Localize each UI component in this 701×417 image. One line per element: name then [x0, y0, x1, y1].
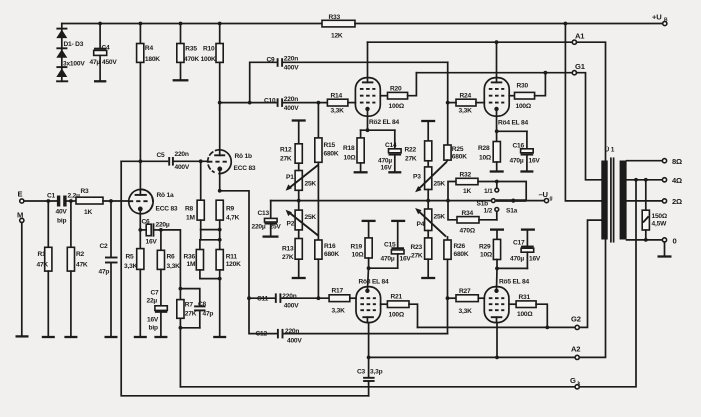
terminal -Ug — [539, 190, 553, 203]
svg-text:10Ω: 10Ω — [344, 155, 357, 162]
transformer secondary winding — [620, 161, 627, 240]
wire: A2 line — [369, 356, 575, 358]
resistor R4 — [137, 24, 161, 162]
junction: R31 on G2 — [545, 326, 549, 330]
svg-text:Ü 1: Ü 1 — [605, 145, 615, 154]
wire: G2 line — [418, 326, 576, 328]
wire: cathode branch to C11/C12 column — [220, 191, 249, 298]
svg-text:1M: 1M — [186, 215, 195, 222]
wire: A1 to transformer primary top — [577, 42, 606, 161]
capacitor C15 470u — [381, 222, 412, 268]
svg-text:R31: R31 — [519, 294, 531, 301]
svg-text:25K: 25K — [305, 181, 317, 188]
svg-text:680K: 680K — [324, 151, 339, 158]
svg-text:R16: R16 — [324, 243, 336, 250]
svg-text:10Ω: 10Ω — [479, 155, 492, 162]
terminal M — [17, 211, 24, 223]
pentode Roe2 EL84 — [355, 78, 399, 126]
ground bar above R29 — [490, 228, 504, 230]
wire: Roe3 cathode bar — [367, 268, 397, 291]
svg-text:R32: R32 — [460, 172, 472, 179]
resistor R6 — [157, 230, 180, 306]
wire: R36/R11 top bar — [200, 239, 220, 241]
svg-text:R5: R5 — [126, 254, 135, 261]
resistor R12 — [280, 121, 302, 171]
svg-text:3,3K: 3,3K — [331, 108, 345, 115]
svg-text:220n: 220n — [284, 96, 298, 103]
terminal A2 — [571, 345, 580, 360]
wire: Roe1a anode lead — [139, 161, 141, 195]
wire: C9 corner to R24 — [447, 62, 449, 102]
svg-text:47p: 47p — [203, 311, 214, 318]
svg-text:27K: 27K — [280, 156, 292, 163]
resistor R10 — [201, 24, 224, 103]
resistor R31 100 ohm (Roe5 screen) — [509, 294, 547, 327]
wire: R36/R11 bottom bar — [200, 278, 220, 280]
ground bar above C17 — [521, 228, 535, 230]
svg-text:ECC 83: ECC 83 — [156, 206, 178, 213]
svg-text:A1: A1 — [575, 32, 585, 41]
svg-text:16V: 16V — [381, 165, 393, 172]
svg-text:bip: bip — [57, 218, 66, 225]
svg-text:150Ω: 150Ω — [652, 213, 668, 220]
pentode Roe5 EL84 (mirrored) — [484, 279, 529, 323]
pentode Roe3 EL84 (mirrored) — [356, 279, 389, 323]
wire: bias midline — [271, 200, 492, 202]
wire: C11 line (cathode to R17) — [249, 297, 274, 299]
junction: load resistor on 0 line — [644, 238, 648, 242]
svg-text:P1: P1 — [286, 174, 294, 181]
wire: R24 to Roe4 grid — [476, 102, 484, 104]
resistor R21 100 ohm (Roe3 screen) — [381, 294, 418, 328]
svg-text:B: B — [664, 18, 668, 24]
wire: input line E to C1 — [24, 200, 57, 202]
svg-text:1K: 1K — [84, 209, 92, 216]
junction: R25 hang node on C9 drop — [446, 101, 450, 105]
ground bar below C2 — [105, 336, 118, 338]
svg-text:10Ω: 10Ω — [352, 252, 365, 259]
svg-text:R11: R11 — [226, 254, 238, 261]
junction: R7/C8 bottom node — [179, 326, 183, 330]
svg-text:8Ω: 8Ω — [672, 157, 682, 166]
wire: C9 line — [250, 62, 276, 102]
capacitor C4 — [90, 24, 118, 82]
svg-text:470µ: 470µ — [378, 158, 392, 165]
resistor R14 3.3K — [327, 93, 348, 115]
svg-text:R7: R7 — [185, 302, 194, 309]
svg-text:220µ: 220µ — [156, 222, 170, 229]
svg-text:220µ: 220µ — [252, 224, 266, 231]
svg-text:g: g — [550, 196, 553, 202]
diodes D1-D3 stack — [56, 24, 85, 82]
resistor R1 — [37, 201, 52, 336]
resistor R3 — [76, 188, 103, 216]
junction: Roe4 cathode node — [495, 129, 499, 133]
svg-text:3,3K: 3,3K — [459, 308, 473, 315]
svg-text:100Ω: 100Ω — [516, 103, 532, 110]
svg-text:Rö4 EL 84: Rö4 EL 84 — [498, 120, 528, 127]
wire: anode-node drop to bottom line (C3 path) — [121, 161, 368, 395]
svg-text:C3: C3 — [357, 369, 366, 376]
resistor R26 — [444, 237, 469, 334]
resistor R19 10 ohm — [351, 222, 373, 268]
svg-text:27K: 27K — [411, 253, 423, 260]
wire: G2 to transformer lower screen tap — [579, 220, 601, 327]
resistor R2 — [67, 201, 88, 336]
svg-text:R3: R3 — [81, 188, 90, 195]
svg-text:3,3K: 3,3K — [124, 263, 138, 270]
wire: R17 to Roe3 grid — [350, 297, 356, 299]
junction: Roe3 cathode node — [367, 266, 371, 270]
wire: Roe1b cathode lead — [219, 169, 221, 191]
capacitor C7 22u bip — [147, 290, 168, 336]
svg-text:R23: R23 — [411, 244, 423, 251]
svg-text:R28: R28 — [478, 145, 490, 152]
svg-text:220n: 220n — [175, 151, 189, 158]
svg-text:R30: R30 — [517, 83, 529, 90]
svg-text:C12: C12 — [256, 331, 268, 338]
svg-text:27K: 27K — [405, 156, 417, 163]
ground bar below C16 — [520, 170, 533, 172]
svg-text:1/2: 1/2 — [484, 208, 493, 215]
wire: Roe1b anode lead (from R10 node) — [219, 103, 221, 156]
ground bar below M — [16, 335, 29, 337]
ground bar below R1 — [42, 336, 55, 338]
svg-text:4Ω: 4Ω — [672, 176, 682, 185]
resistor R8 — [185, 161, 204, 229]
svg-text:3,3K: 3,3K — [332, 308, 346, 315]
junction: feedback on 4 ohm — [634, 178, 638, 182]
svg-text:47K: 47K — [76, 262, 88, 269]
resistor R24 3.3K — [456, 93, 476, 115]
wire: R14 to Roe2 grid — [348, 102, 356, 104]
svg-text:16V: 16V — [147, 317, 159, 324]
svg-text:R29: R29 — [479, 244, 491, 251]
ground bar below R11 column — [213, 336, 226, 338]
svg-text:–U: –U — [539, 190, 549, 199]
resistor R32 1K — [448, 172, 526, 201]
wire: Roe5 cathode bar — [497, 268, 528, 290]
junction: Roe3 anode on A2 — [367, 356, 371, 360]
svg-text:450V: 450V — [102, 59, 117, 66]
wire: R3 to Roe1a grid — [103, 200, 129, 202]
svg-text:100Ω: 100Ω — [389, 103, 405, 110]
svg-text:R8: R8 — [185, 206, 194, 213]
junction: R10 on rail — [218, 22, 222, 26]
resistor R22 — [405, 121, 432, 167]
svg-text:400V: 400V — [284, 303, 299, 310]
switch contact 1/2 (S1a) — [484, 208, 518, 220]
wire: Roe2 cathode bar — [361, 109, 395, 130]
capacitor C16 470u — [510, 131, 541, 170]
svg-text:220n: 220n — [285, 328, 299, 335]
transformer core — [610, 158, 612, 241]
svg-text:R24: R24 — [460, 93, 472, 100]
wire: Roe1a cathode lead — [139, 209, 141, 230]
svg-text:22µ: 22µ — [147, 298, 158, 305]
svg-text:25K: 25K — [434, 214, 446, 221]
resistor R35 — [177, 24, 200, 80]
switch contact 1/1 — [484, 182, 499, 196]
wire: +UB top rail right part — [355, 23, 663, 25]
svg-text:100Ω: 100Ω — [517, 311, 533, 318]
terminal 0 — [662, 237, 676, 246]
svg-text:2Ω: 2Ω — [672, 197, 682, 206]
svg-text:470Ω: 470Ω — [460, 228, 476, 235]
svg-text:R15: R15 — [324, 142, 336, 149]
resistor R30 100 ohm (Roe4 screen) — [509, 73, 545, 110]
ground bar above C15 — [391, 220, 405, 222]
junction: C6 / R6 / feedback tap — [159, 228, 163, 232]
svg-text:C9: C9 — [267, 57, 276, 64]
svg-text:G2: G2 — [571, 315, 581, 324]
wire: C12 line (cathode column to Roe5 branch) — [249, 298, 276, 333]
resistor R36 — [184, 240, 204, 279]
capacitor C13 220u 25V (bias decoupling) — [252, 201, 282, 236]
svg-text:3x100V: 3x100V — [63, 61, 85, 68]
svg-text:400V: 400V — [284, 105, 299, 112]
svg-text:16V: 16V — [529, 256, 541, 263]
wire: C5 line (Roe1a anode node to Roe1b grid) — [121, 160, 167, 162]
junction: Roe5 anode on A2 — [495, 356, 499, 360]
svg-text:47K: 47K — [37, 262, 49, 269]
svg-text:C11: C11 — [257, 296, 269, 303]
switch S1b arm — [477, 199, 527, 208]
svg-text:+U: +U — [652, 13, 662, 22]
potentiometer P1 25K — [286, 165, 319, 201]
transformer primary winding — [601, 161, 607, 240]
svg-text:1K: 1K — [463, 188, 471, 195]
junction: R8 top on C5 line — [199, 159, 203, 163]
wire: jog to R7 column — [161, 230, 181, 289]
junction: Roe5 cathode node — [495, 267, 499, 271]
junction: Roe4 anode on A1 — [495, 40, 499, 44]
svg-text:R4: R4 — [145, 45, 154, 52]
wire: R8/R9 join bar — [201, 229, 220, 231]
svg-text:4,7K: 4,7K — [226, 215, 240, 222]
junction: P1 column on midline — [297, 199, 301, 203]
wire: G1 to transformer screen tap — [577, 73, 602, 180]
svg-text:4,5W: 4,5W — [652, 221, 668, 228]
svg-text:R21: R21 — [391, 294, 403, 301]
junction: C2 on grid line — [109, 199, 113, 203]
terminal A1 — [572, 32, 585, 45]
junction: R15 top on C10 line — [317, 101, 321, 105]
capacitor C10 220n — [264, 96, 299, 112]
svg-text:C1: C1 — [47, 193, 56, 200]
junction: R2 on input line — [69, 199, 73, 203]
resistor R20 100 ohm (Roe2 screen) — [380, 73, 416, 110]
wire: secondary bottom to 0 — [627, 239, 663, 241]
svg-text:400V: 400V — [175, 164, 190, 171]
svg-text:R19: R19 — [351, 244, 363, 251]
ground bar below R18 — [354, 171, 368, 173]
svg-text:A2: A2 — [571, 345, 580, 354]
svg-text:40V: 40V — [56, 209, 68, 216]
wire: secondary 4 ohm tap — [627, 179, 663, 181]
wire: Roe4 cathode bar — [497, 109, 527, 142]
svg-text:120K: 120K — [226, 261, 241, 268]
svg-text:25K: 25K — [434, 181, 446, 188]
ground bar below C14 — [388, 171, 401, 173]
ground bar below R5 — [134, 336, 147, 338]
capacitor C14 470u — [378, 130, 401, 171]
wire: C8 bottom to R7 bottom — [180, 327, 199, 329]
ground below 0 terminal — [658, 242, 672, 257]
potentiometer P3 25K — [413, 162, 446, 200]
svg-text:3,3K: 3,3K — [167, 263, 181, 270]
svg-text:R10: R10 — [203, 46, 215, 53]
junction: R10/anode node — [218, 101, 222, 105]
svg-text:Rö 1b: Rö 1b — [235, 153, 252, 160]
svg-text:Rö5 EL 84: Rö5 EL 84 — [499, 279, 529, 286]
svg-text:R27: R27 — [459, 288, 471, 295]
terminal 4 ohm — [662, 176, 682, 185]
resistor R16 — [315, 240, 340, 298]
svg-text:470K: 470K — [184, 56, 199, 63]
wire: +UB drop to primary centre tap — [565, 24, 601, 201]
resistor R33 (in series with top rail) — [322, 14, 355, 40]
wire: Roe5 anode drop to A2 — [496, 317, 498, 322]
svg-text:0: 0 — [673, 237, 677, 246]
wire: +UB top rail left part — [62, 23, 322, 25]
svg-text:3,3K: 3,3K — [459, 108, 473, 115]
svg-text:R35: R35 — [185, 46, 197, 53]
resistor R25 — [444, 103, 467, 163]
junction: R4/anode column on C5 line — [139, 159, 143, 163]
capacitor C1 2.2u bip — [47, 193, 80, 225]
potentiometer P4 25K — [415, 201, 446, 237]
resistor 150 ohm 4.5W load — [642, 180, 668, 240]
svg-text:16V: 16V — [529, 158, 541, 165]
svg-text:180K: 180K — [145, 56, 160, 63]
svg-text:R6: R6 — [167, 254, 176, 261]
resistor R18 10 ohm — [343, 130, 364, 171]
junction: load resistor on 4 ohm — [644, 178, 648, 182]
wire: arm to -Ug — [526, 200, 544, 202]
svg-text:bip: bip — [149, 325, 158, 332]
potentiometer P2 25K — [286, 201, 319, 236]
resistor R9 — [216, 200, 239, 249]
resistor R11 — [216, 250, 241, 336]
junction: R30 branch on G1 — [544, 71, 548, 75]
svg-text:680K: 680K — [324, 251, 339, 258]
svg-text:1M: 1M — [187, 261, 196, 268]
wire: A1 line — [368, 41, 573, 43]
capacitor C2 47p — [99, 201, 118, 336]
resistor R28 10 ohm — [478, 142, 500, 171]
svg-text:P4: P4 — [417, 221, 425, 228]
svg-text:100Ω: 100Ω — [389, 312, 405, 319]
svg-text:C15: C15 — [384, 242, 396, 249]
svg-text:Rö 1a: Rö 1a — [157, 192, 174, 199]
junction: C9 branch on C10 line — [248, 101, 252, 105]
wire: G1 line — [416, 72, 572, 74]
triode U1b (Roe 1b ECC83) — [208, 150, 256, 174]
svg-text:S1b: S1b — [477, 201, 489, 208]
svg-text:680K: 680K — [454, 251, 469, 258]
svg-text:R13: R13 — [282, 246, 294, 253]
svg-text:16V: 16V — [146, 239, 158, 246]
ground bar below C7 — [154, 336, 167, 338]
terminal E — [18, 190, 24, 204]
svg-text:S1a: S1a — [506, 208, 518, 215]
terminal 8 ohm — [662, 157, 682, 166]
svg-text:C16: C16 — [513, 143, 525, 150]
svg-text:10Ω: 10Ω — [480, 252, 493, 259]
svg-text:16V: 16V — [400, 256, 412, 263]
svg-text:47p: 47p — [99, 269, 110, 276]
svg-text:12K: 12K — [331, 33, 343, 40]
capacitor C6 220u (horizontal electrolytic) — [140, 219, 170, 246]
svg-text:25K: 25K — [305, 214, 317, 221]
pentode Roe4 EL84 — [484, 78, 528, 127]
junction: Roe2 cathode node — [366, 128, 370, 132]
svg-text:400V: 400V — [284, 65, 299, 72]
svg-text:R20: R20 — [390, 86, 402, 93]
ground bar below R23 — [421, 277, 435, 279]
svg-text:25V: 25V — [270, 224, 282, 231]
terminal Gk — [570, 376, 581, 389]
svg-text:ECC 83: ECC 83 — [234, 165, 256, 172]
svg-text:E: E — [18, 190, 23, 199]
svg-text:R22: R22 — [405, 147, 417, 154]
svg-text:R12: R12 — [280, 147, 292, 154]
svg-text:R26: R26 — [454, 243, 466, 250]
svg-text:27K: 27K — [185, 311, 197, 318]
svg-text:C5: C5 — [157, 152, 166, 159]
wire: feedback drop R7 to Gk line — [179, 328, 181, 387]
capacitor C5 220n — [157, 151, 190, 171]
capacitor C9 220n — [267, 56, 300, 72]
svg-text:C8: C8 — [198, 301, 207, 308]
svg-text:P3: P3 — [413, 174, 421, 181]
resistor R7 — [177, 289, 197, 328]
junction: R7/C8 top node — [179, 287, 183, 291]
junction: R32/R34 branch on midline — [446, 199, 450, 203]
svg-text:R2: R2 — [76, 251, 85, 258]
svg-text:Rö3 EL 84: Rö3 EL 84 — [359, 279, 389, 286]
svg-text:R33: R33 — [329, 14, 341, 21]
junction: contact 1/1 stub on R32 wire — [495, 180, 499, 184]
junction: C11 column — [247, 296, 251, 300]
junction: P3 column on midline — [426, 199, 430, 203]
svg-text:D1- D3: D1- D3 — [64, 41, 84, 48]
resistor R17 3.3K — [329, 288, 350, 315]
svg-text:C17: C17 — [513, 240, 525, 247]
svg-text:27K: 27K — [282, 254, 294, 261]
junction: R16 bottom on C11 line — [317, 296, 321, 300]
terminal G2 — [571, 315, 581, 330]
svg-text:3,3p: 3,3p — [370, 369, 383, 376]
svg-text:C7: C7 — [151, 290, 160, 297]
terminal G1 — [572, 62, 585, 75]
svg-text:100K: 100K — [201, 56, 216, 63]
resistor R27 3.3K — [448, 288, 485, 315]
wire: left leg between join bars — [200, 230, 202, 240]
junction: C4 on rail — [98, 22, 102, 26]
resistor R13 — [282, 230, 302, 277]
junction: R1 on input line — [46, 199, 50, 203]
ground bar below R28 — [490, 170, 504, 172]
svg-text:C13: C13 — [258, 210, 270, 217]
svg-text:400V: 400V — [287, 338, 302, 345]
svg-text:Rö2 EL 84: Rö2 EL 84 — [369, 119, 399, 126]
svg-text:R17: R17 — [332, 288, 344, 295]
svg-text:C2: C2 — [100, 243, 109, 250]
svg-text:C14: C14 — [385, 142, 397, 149]
capacitor C17 470u — [510, 231, 541, 269]
